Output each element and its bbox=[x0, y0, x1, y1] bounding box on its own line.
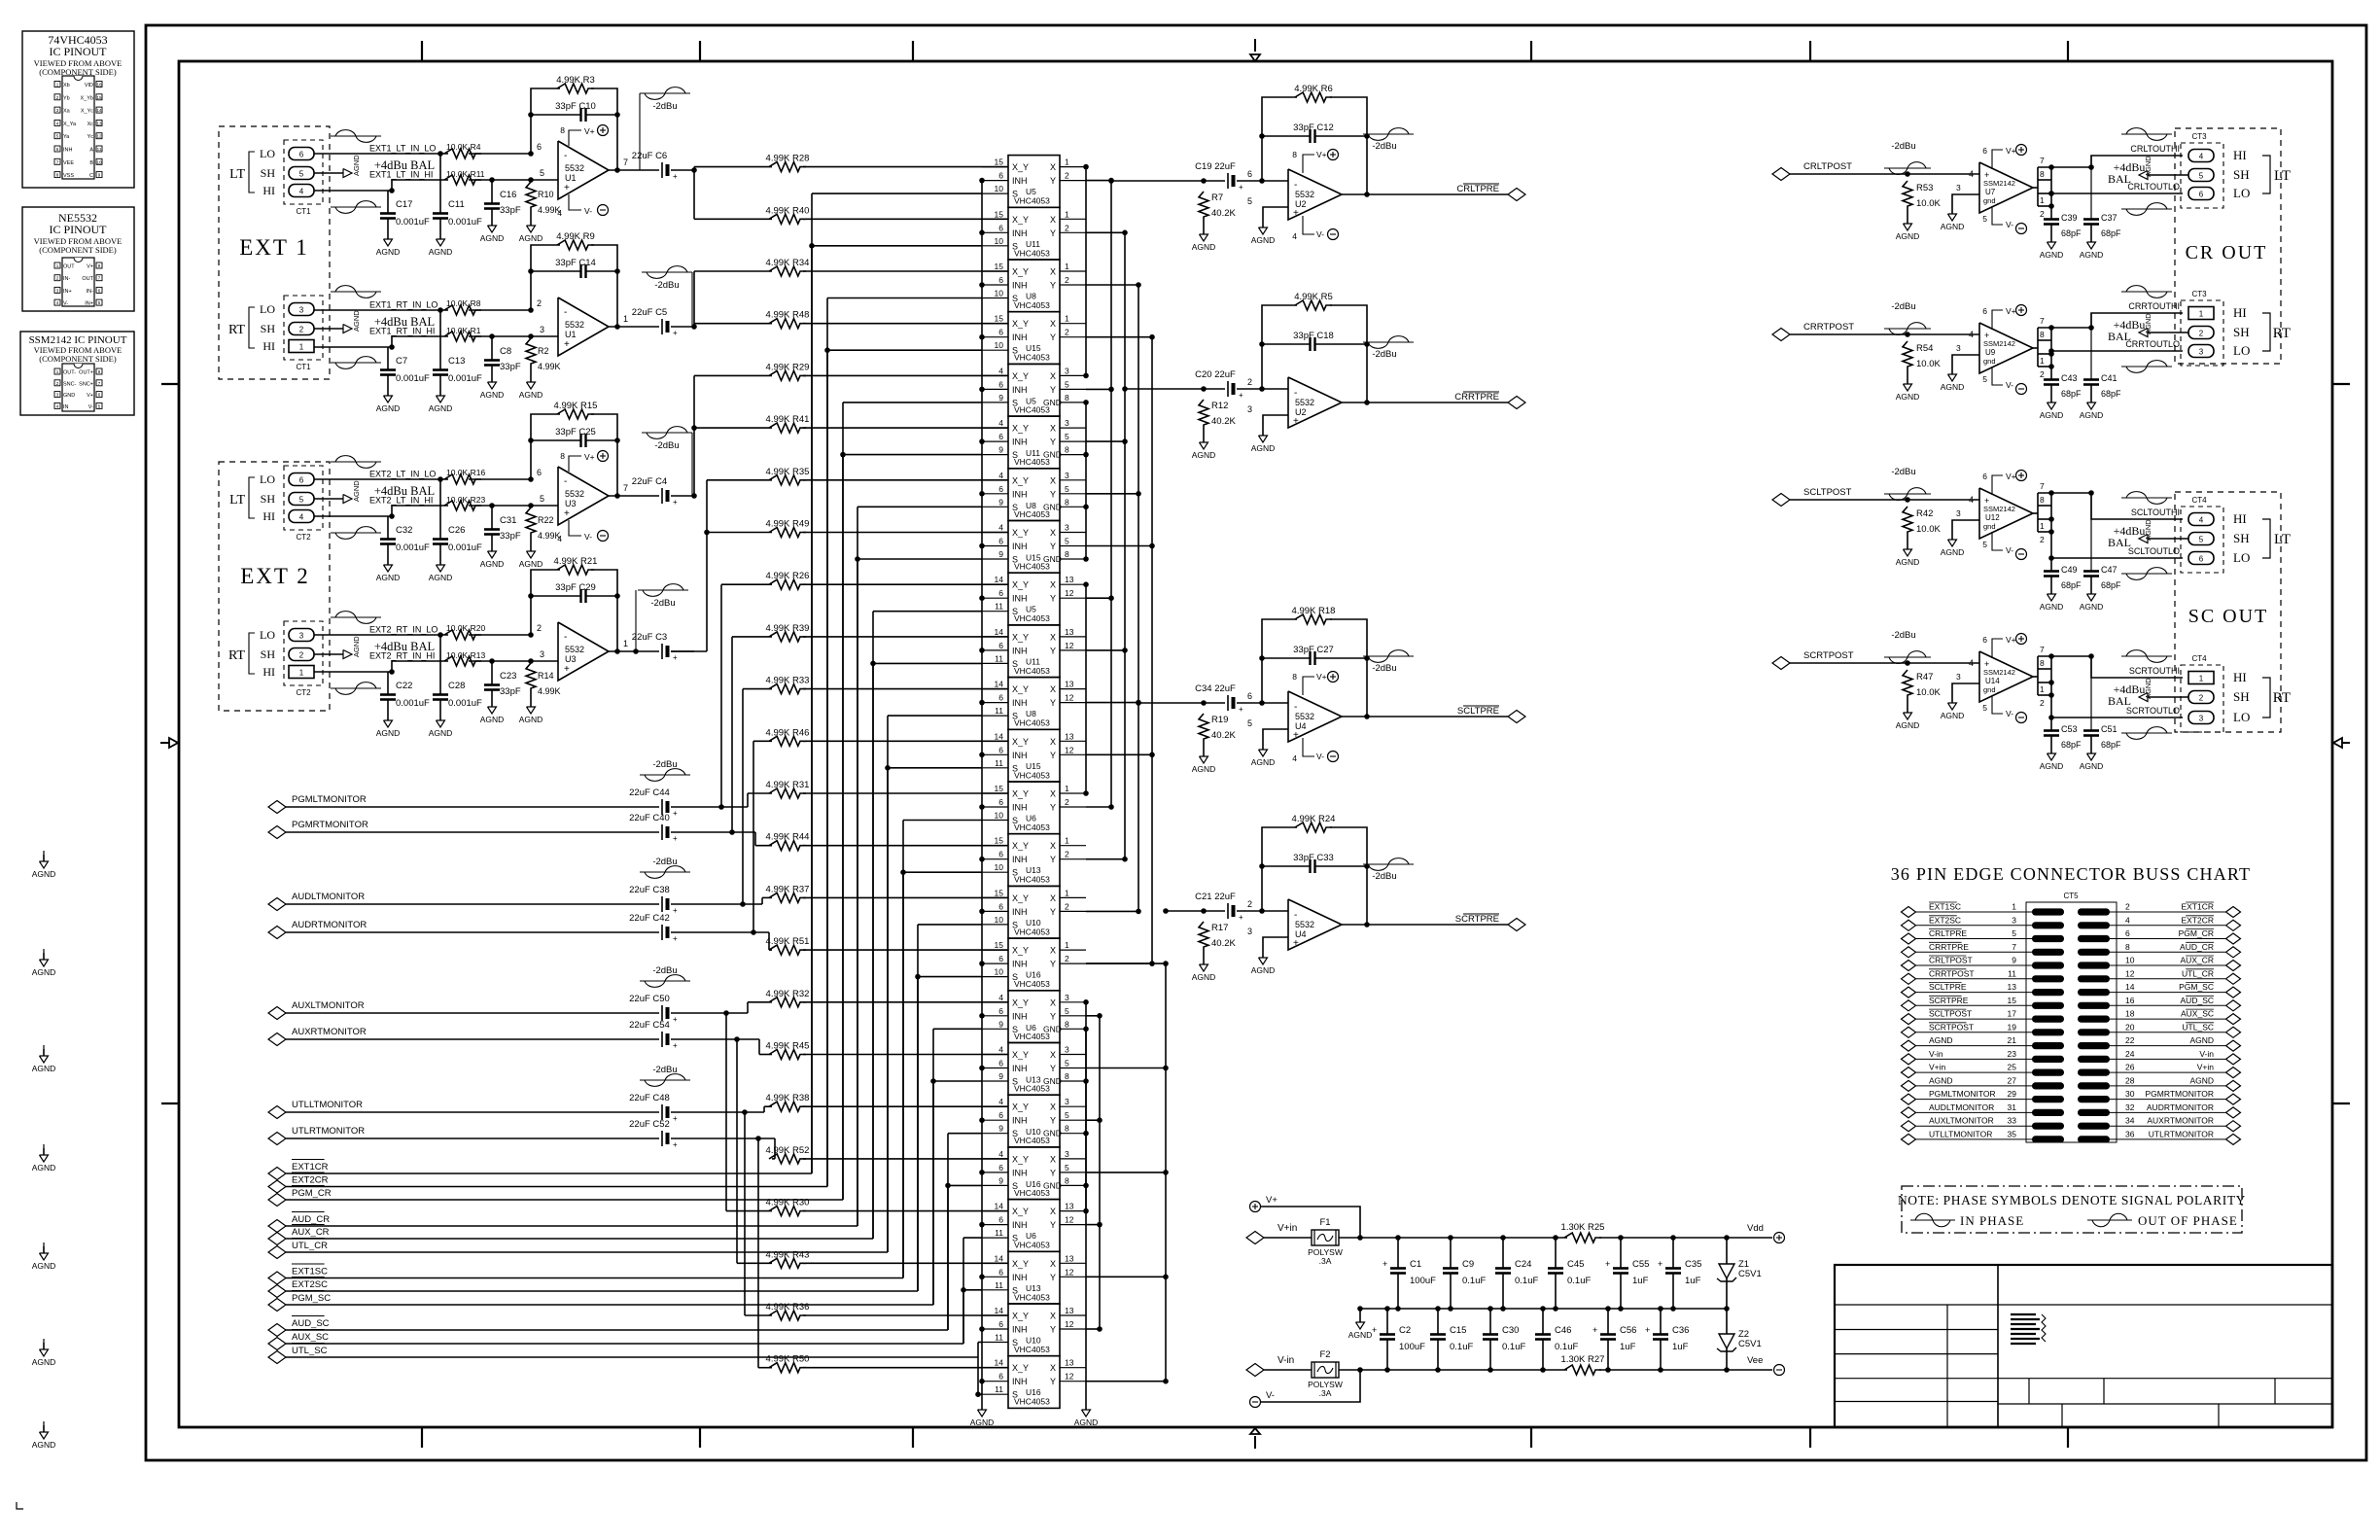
svg-text:6: 6 bbox=[1982, 306, 1987, 316]
svg-text:1: 1 bbox=[2040, 521, 2045, 531]
svg-text:22uF C3: 22uF C3 bbox=[632, 632, 667, 643]
svg-text:X: X bbox=[1050, 841, 1056, 851]
svg-text:1: 1 bbox=[1065, 262, 1069, 271]
svg-text:AUDLTMONITOR: AUDLTMONITOR bbox=[1929, 1102, 1994, 1112]
svg-text:-2dBu: -2dBu bbox=[652, 857, 677, 867]
feedback capacitor C25 33pF bbox=[528, 437, 534, 443]
phase symbol below LO bbox=[2121, 573, 2172, 575]
svg-text:3: 3 bbox=[1065, 523, 1069, 533]
op-amp U1 5532 (input stage) bbox=[558, 141, 609, 199]
svg-text:14: 14 bbox=[995, 575, 1004, 584]
svg-text:13: 13 bbox=[1065, 627, 1074, 637]
svg-text:C1: C1 bbox=[1410, 1259, 1421, 1270]
svg-text:C23: C23 bbox=[500, 671, 516, 682]
U9 gnd pin 3 bbox=[1952, 355, 1979, 367]
svg-text:5: 5 bbox=[299, 496, 304, 505]
phase symbol -2dBu bbox=[1884, 167, 1931, 169]
svg-text:3: 3 bbox=[1956, 508, 1961, 518]
svg-text:INH: INH bbox=[1012, 281, 1028, 291]
wire -2dBu tap U1b bbox=[691, 272, 693, 327]
svg-text:15: 15 bbox=[995, 888, 1004, 897]
U5 right pin stubs bbox=[1060, 166, 1086, 168]
resistor R8 10.0K bbox=[444, 305, 481, 315]
connector pin 3 LO bbox=[2188, 712, 2214, 724]
border arrow right bbox=[2342, 742, 2350, 744]
svg-text:-2dBu: -2dBu bbox=[1372, 663, 1396, 674]
svg-text:Y: Y bbox=[1050, 176, 1056, 186]
svg-text:68pF: 68pF bbox=[2101, 740, 2121, 750]
svg-text:5: 5 bbox=[2012, 928, 2016, 938]
svg-text:6: 6 bbox=[998, 171, 1003, 181]
U10 right pin stubs bbox=[1060, 896, 1086, 898]
svg-text:CRLTPRE: CRLTPRE bbox=[1929, 928, 1967, 938]
svg-text:3: 3 bbox=[1956, 343, 1961, 353]
svg-text:6: 6 bbox=[1982, 472, 1987, 481]
svg-text:CRRTPRE: CRRTPRE bbox=[1929, 942, 1969, 952]
resistor R30 4.99K bbox=[769, 1207, 806, 1216]
svg-text:7: 7 bbox=[623, 157, 628, 167]
svg-text:4: 4 bbox=[2125, 915, 2130, 925]
svg-text:CRLTPRE: CRLTPRE bbox=[1456, 184, 1499, 194]
capacitor C19 22uF bbox=[1227, 173, 1229, 189]
svg-text:HI: HI bbox=[262, 184, 275, 197]
svg-text:12: 12 bbox=[1065, 693, 1074, 703]
wire monitor branch to R44 bbox=[754, 832, 756, 846]
resistor R48 4.99K (EXT1RT to U15 X_Y) bbox=[769, 319, 806, 329]
svg-text:10: 10 bbox=[995, 184, 1004, 193]
svg-text:5: 5 bbox=[1982, 214, 1987, 224]
feedback resistor R6 4.99K bbox=[1262, 97, 1297, 181]
svg-text:U16: U16 bbox=[1026, 970, 1041, 980]
svg-text:AGND: AGND bbox=[519, 233, 543, 243]
svg-text:X_Y: X_Y bbox=[1012, 946, 1029, 956]
svg-text:gnd: gnd bbox=[1983, 196, 1996, 205]
connector pin 2 SH bbox=[2188, 327, 2214, 339]
border fiducial ticks bottom bbox=[421, 1427, 423, 1448]
wire conn LT SH to AGND bbox=[314, 172, 343, 174]
capacitor C13 0.001uF bbox=[437, 307, 443, 313]
svg-text:CT4: CT4 bbox=[2191, 654, 2207, 663]
bottom-left corner registration mark bbox=[17, 1502, 23, 1509]
svg-text:V-: V- bbox=[2006, 380, 2013, 390]
resistor R50 4.99K bbox=[769, 1363, 806, 1373]
svg-text:10: 10 bbox=[96, 159, 102, 164]
svg-text:AGND: AGND bbox=[352, 310, 361, 332]
connector pin 5 (conn LT SH) bbox=[289, 493, 314, 506]
svg-text:9: 9 bbox=[998, 1124, 1003, 1134]
ground AGND bbox=[2050, 235, 2052, 242]
svg-text:2: 2 bbox=[1065, 223, 1069, 232]
svg-text:0.1uF: 0.1uF bbox=[1462, 1276, 1486, 1286]
svg-text:+: + bbox=[673, 1114, 678, 1123]
svg-text:VHC4053: VHC4053 bbox=[1014, 509, 1050, 519]
connector pin 3 (conn RT LO) bbox=[289, 303, 314, 316]
svg-text:U5: U5 bbox=[1026, 605, 1036, 614]
svg-text:14: 14 bbox=[995, 1306, 1004, 1315]
svg-text:30: 30 bbox=[2125, 1089, 2135, 1099]
analog switch U11 VHC4053 section (block 6) bbox=[1008, 416, 1060, 469]
svg-text:4.99K R46: 4.99K R46 bbox=[766, 727, 810, 738]
svg-text:33pF C14: 33pF C14 bbox=[555, 258, 596, 268]
wire AUX_CR to select pins bbox=[286, 1238, 873, 1240]
svg-text:7: 7 bbox=[2040, 481, 2045, 491]
svg-text:X_Y: X_Y bbox=[1012, 528, 1029, 538]
svg-text:V-: V- bbox=[584, 206, 592, 216]
wire SCLTOUTHI bbox=[2088, 490, 2094, 496]
svg-text:U2: U2 bbox=[1295, 407, 1307, 417]
svg-text:1: 1 bbox=[1065, 784, 1069, 793]
svg-text:(COMPONENT SIDE): (COMPONENT SIDE) bbox=[39, 354, 117, 364]
svg-text:10.0K: 10.0K bbox=[1916, 198, 1941, 209]
svg-text:6: 6 bbox=[2199, 555, 2204, 564]
ground AGND bbox=[1907, 706, 1908, 713]
svg-text:AGND: AGND bbox=[480, 233, 505, 243]
svg-text:5: 5 bbox=[1065, 432, 1069, 441]
74VHC4053 pin 1 / pin 16 bbox=[54, 82, 60, 87]
wire SH to AGND bbox=[2148, 696, 2188, 698]
svg-text:AGND: AGND bbox=[1348, 1330, 1373, 1340]
terminal SCLTPOST bbox=[1772, 494, 1790, 507]
wire -2dBu tap U3b bbox=[635, 590, 637, 651]
svg-text:33pF C33: 33pF C33 bbox=[1293, 853, 1334, 863]
svg-text:U10: U10 bbox=[1026, 1336, 1041, 1346]
terminal EXT1SC bbox=[268, 1272, 286, 1284]
svg-text:14: 14 bbox=[995, 1358, 1004, 1368]
svg-text:VHC4053: VHC4053 bbox=[1014, 1345, 1050, 1354]
SC OUT section dashed outline bbox=[2175, 492, 2281, 732]
wire CRRTPRE output bbox=[1342, 402, 1508, 403]
phase symbol -2dBu at U1a output bbox=[640, 92, 690, 94]
svg-text:+: + bbox=[564, 664, 570, 675]
svg-text:VHC4053: VHC4053 bbox=[1014, 300, 1050, 310]
svg-text:22uF C44: 22uF C44 bbox=[629, 787, 670, 798]
svg-text:R2: R2 bbox=[538, 346, 549, 356]
svg-text:5: 5 bbox=[1982, 540, 1987, 549]
svg-text:U14: U14 bbox=[1985, 677, 2000, 685]
svg-text:AUXLTMONITOR: AUXLTMONITOR bbox=[292, 1000, 365, 1011]
svg-text:Y: Y bbox=[1050, 855, 1056, 864]
svg-text:2: 2 bbox=[299, 651, 304, 660]
resistor R52 4.99K bbox=[769, 1154, 806, 1164]
ground AGND bbox=[387, 714, 389, 720]
svg-text:3: 3 bbox=[1065, 366, 1069, 375]
svg-text:Vee: Vee bbox=[1747, 1355, 1763, 1366]
svg-text:6: 6 bbox=[998, 1319, 1003, 1329]
svg-text:Y: Y bbox=[1050, 1377, 1056, 1386]
analog switch U16 VHC4053 section (block 16) bbox=[1008, 938, 1060, 991]
svg-text:EXT1SC: EXT1SC bbox=[292, 1267, 328, 1277]
svg-text:1: 1 bbox=[1065, 940, 1069, 950]
svg-text:LT: LT bbox=[2274, 168, 2291, 184]
svg-text:U4: U4 bbox=[1295, 929, 1307, 939]
svg-text:10: 10 bbox=[2125, 956, 2135, 965]
svg-text:SCRTPRE: SCRTPRE bbox=[1929, 996, 1969, 1005]
svg-text:4.99K R18: 4.99K R18 bbox=[1292, 606, 1336, 616]
svg-text:UTL_CR: UTL_CR bbox=[292, 1241, 328, 1251]
wire Y output stub extension bbox=[1086, 1224, 1100, 1226]
U11 left pin stubs bbox=[982, 636, 1008, 638]
svg-text:6: 6 bbox=[1247, 691, 1252, 701]
connector pin 6 LO bbox=[2188, 552, 2214, 565]
wire monitor branch to R50 bbox=[671, 1137, 775, 1139]
feedback resistor R21 4.99K bbox=[528, 632, 534, 638]
svg-text:8: 8 bbox=[1065, 1019, 1069, 1029]
svg-text:33pF C12: 33pF C12 bbox=[1293, 122, 1334, 133]
svg-text:10.0K R11: 10.0K R11 bbox=[446, 169, 485, 179]
U15 right pin stubs bbox=[1060, 740, 1086, 742]
ground AGND bbox=[530, 700, 532, 707]
svg-text:-2dBu: -2dBu bbox=[1891, 630, 1915, 641]
svg-text:4: 4 bbox=[1969, 658, 1974, 668]
wire conn RT SH to AGND bbox=[314, 328, 343, 330]
svg-text:33pF C29: 33pF C29 bbox=[555, 582, 596, 593]
svg-text:R53: R53 bbox=[1916, 183, 1933, 193]
svg-text:R7: R7 bbox=[1211, 192, 1223, 203]
svg-text:EXT2SC: EXT2SC bbox=[292, 1279, 328, 1290]
svg-text:C5V1: C5V1 bbox=[1738, 1339, 1762, 1349]
svg-text:0.1uF: 0.1uF bbox=[1502, 1342, 1525, 1352]
svg-text:Y: Y bbox=[1050, 281, 1056, 291]
svg-text:X: X bbox=[1050, 946, 1056, 956]
U11 right pin stubs bbox=[1060, 636, 1086, 638]
svg-text:14: 14 bbox=[995, 1253, 1004, 1263]
svg-text:0.001uF: 0.001uF bbox=[396, 698, 430, 709]
svg-text:Xa: Xa bbox=[63, 109, 71, 115]
U5 right pin stubs bbox=[1060, 583, 1086, 585]
svg-text:Y: Y bbox=[1050, 1116, 1056, 1126]
resistor R14 4.99K bbox=[528, 658, 534, 664]
svg-text:12: 12 bbox=[2125, 968, 2135, 978]
svg-text:X_Y: X_Y bbox=[1012, 1259, 1029, 1269]
feedback capacitor C33 33pF bbox=[1259, 863, 1265, 869]
svg-text:V-in: V-in bbox=[1929, 1049, 1943, 1059]
svg-text:U15: U15 bbox=[1026, 761, 1041, 771]
svg-text:X_Ya: X_Ya bbox=[63, 122, 77, 127]
svg-text:LO: LO bbox=[2233, 710, 2250, 724]
svg-text:11: 11 bbox=[995, 758, 1003, 768]
svg-text:U11: U11 bbox=[1026, 656, 1040, 666]
analog switch U13 VHC4053 section (block 18) bbox=[1008, 1043, 1060, 1096]
svg-text:6: 6 bbox=[998, 537, 1003, 546]
wire monitor branch to R37 bbox=[761, 897, 763, 904]
analog switch U13 VHC4053 section (block 14) bbox=[1008, 834, 1060, 887]
svg-text:IC PINOUT: IC PINOUT bbox=[50, 223, 108, 236]
svg-text:LO: LO bbox=[260, 628, 275, 642]
wire vertical bus (X outputs group 2) bbox=[1085, 584, 1087, 793]
resistor R39 4.99K bbox=[769, 632, 806, 642]
svg-text:SCRTPOST: SCRTPOST bbox=[1929, 1022, 1974, 1032]
capacitor C17 0.001uF bbox=[387, 191, 389, 213]
wire AGND rail stub bbox=[1359, 1309, 1361, 1315]
U7 gnd pin 3 bbox=[1952, 194, 1979, 207]
svg-text:C39: C39 bbox=[2061, 213, 2078, 223]
svg-text:AGND: AGND bbox=[2144, 156, 2152, 177]
svg-text:R19: R19 bbox=[1211, 715, 1228, 725]
svg-text:2: 2 bbox=[2040, 209, 2045, 219]
phase symbol above conn RT bbox=[331, 616, 381, 618]
feedback resistor R5 4.99K bbox=[1262, 305, 1297, 389]
buss chart row pin 7 CRRTPRE bbox=[1902, 947, 1916, 958]
U11 right pin stubs bbox=[1060, 427, 1086, 429]
capacitor C7 0.001uF bbox=[387, 347, 389, 369]
phase symbol above HI bbox=[2121, 133, 2172, 135]
wire GND pins common vertical lower bbox=[1085, 1029, 1087, 1185]
svg-text:AGND: AGND bbox=[2144, 519, 2152, 541]
phase symbol below conn RT bbox=[331, 687, 381, 689]
title block vertical divider bbox=[1997, 1265, 1999, 1427]
feedback capacitor C27 33pF bbox=[1259, 655, 1265, 661]
wire Y output stub extension bbox=[1086, 1276, 1166, 1277]
capacitor C35 1uF bbox=[1672, 1238, 1674, 1268]
svg-text:4.99K R44: 4.99K R44 bbox=[766, 832, 810, 843]
svg-text:CT3: CT3 bbox=[2191, 132, 2207, 141]
svg-text:12: 12 bbox=[1065, 1372, 1074, 1382]
svg-text:5: 5 bbox=[299, 170, 304, 179]
svg-text:C9: C9 bbox=[1462, 1259, 1474, 1270]
terminal SCLTPRE bbox=[1508, 711, 1525, 723]
svg-text:+: + bbox=[673, 834, 678, 843]
capacitor C49 68pF bbox=[2048, 490, 2054, 496]
resistor R54 10.0K to ground bbox=[1905, 332, 1910, 337]
resistor R13 10.0K bbox=[444, 656, 481, 666]
svg-text:0.001uF: 0.001uF bbox=[448, 217, 482, 227]
svg-text:AGND: AGND bbox=[352, 155, 361, 176]
svg-text:4.99K R36: 4.99K R36 bbox=[766, 1302, 810, 1312]
svg-text:R17: R17 bbox=[1211, 923, 1228, 933]
svg-text:15: 15 bbox=[995, 836, 1004, 846]
wire non-inverting input pin 3 to ground bbox=[1263, 415, 1288, 429]
74VHC4053 pin 2 / pin 15 bbox=[54, 94, 60, 100]
svg-text:V-: V- bbox=[1266, 1390, 1275, 1401]
svg-text:100uF: 100uF bbox=[1410, 1276, 1436, 1286]
svg-text:V-in: V-in bbox=[2199, 1049, 2214, 1059]
U9 output sense pins 7 8 bbox=[2033, 347, 2038, 349]
wire monitor branch to R39 bbox=[671, 831, 755, 833]
svg-text:LO: LO bbox=[260, 302, 275, 316]
phase symbol -2dBu at U3a output bbox=[642, 432, 692, 434]
svg-text:6: 6 bbox=[299, 151, 304, 159]
resistor R37 4.99K bbox=[769, 892, 806, 902]
svg-text:4: 4 bbox=[299, 188, 304, 196]
svg-text:IN-: IN- bbox=[87, 289, 94, 295]
svg-text:9: 9 bbox=[998, 549, 1003, 559]
svg-text:21: 21 bbox=[2008, 1035, 2017, 1045]
fuse F1 POLYSW 3A bbox=[1312, 1230, 1339, 1245]
svg-text:AGND: AGND bbox=[1251, 757, 1276, 767]
svg-text:AGND: AGND bbox=[2144, 313, 2152, 334]
svg-text:VHC4053: VHC4053 bbox=[1014, 927, 1050, 936]
svg-text:LO: LO bbox=[2233, 343, 2250, 358]
wire EXT1SC to select pins bbox=[286, 1277, 903, 1279]
svg-text:SCRTOUTHI: SCRTOUTHI bbox=[2129, 666, 2180, 676]
analog switch U10 VHC4053 section (block 19) bbox=[1008, 1095, 1060, 1147]
svg-text:C49: C49 bbox=[2061, 565, 2078, 575]
capacitor C26 0.001uF bbox=[437, 476, 443, 482]
wire AUDLTMONITOR bbox=[286, 903, 659, 905]
op-amp U1 V- power pin 4 bbox=[569, 194, 581, 210]
svg-text:7: 7 bbox=[2040, 316, 2045, 326]
svg-text:11: 11 bbox=[995, 706, 1003, 716]
wire vertical bus (X outputs group 1) bbox=[1085, 167, 1087, 376]
svg-text:C35: C35 bbox=[1685, 1259, 1701, 1270]
svg-text:15: 15 bbox=[995, 262, 1004, 271]
svg-text:-2dBu: -2dBu bbox=[1372, 141, 1396, 152]
zener diode Z1 C5V1 bbox=[1726, 1238, 1728, 1264]
svg-text:V-: V- bbox=[2006, 220, 2013, 229]
svg-text:10.0K R8: 10.0K R8 bbox=[446, 298, 481, 308]
svg-text:X: X bbox=[1050, 267, 1056, 277]
svg-text:17: 17 bbox=[2008, 1009, 2017, 1019]
svg-text:X: X bbox=[1050, 424, 1056, 434]
svg-text:+: + bbox=[564, 508, 570, 519]
phase symbol above HI bbox=[2121, 655, 2172, 657]
svg-text:-2dBu: -2dBu bbox=[1891, 301, 1915, 312]
U14 V+ pin 6 bbox=[1992, 639, 2003, 658]
svg-text:22uF C48: 22uF C48 bbox=[629, 1093, 670, 1103]
svg-text:1: 1 bbox=[1065, 209, 1069, 219]
svg-text:RT: RT bbox=[2273, 326, 2291, 341]
svg-text:4.99K R32: 4.99K R32 bbox=[766, 989, 810, 999]
op-amp U2 V+ pin 8 bbox=[1303, 155, 1314, 173]
phase symbol above conn RT bbox=[331, 291, 381, 293]
svg-text:AGND: AGND bbox=[2144, 678, 2152, 699]
svg-text:VHC4053: VHC4053 bbox=[1014, 770, 1050, 780]
capacitor C23 33pF bbox=[489, 658, 495, 664]
buss chart row pin 12 UTL_CR bbox=[2078, 975, 2110, 982]
svg-text:6: 6 bbox=[299, 476, 304, 485]
svg-text:LO: LO bbox=[2233, 186, 2250, 200]
svg-text:AUX_SC: AUX_SC bbox=[2181, 1009, 2214, 1019]
U13 right pin stubs bbox=[1060, 1054, 1086, 1056]
wire AUXLTMONITOR bbox=[286, 1012, 659, 1014]
svg-text:EXT1_RT_IN_HI: EXT1_RT_IN_HI bbox=[369, 327, 435, 336]
svg-text:11: 11 bbox=[995, 1228, 1003, 1238]
svg-text:4.99K R37: 4.99K R37 bbox=[766, 884, 810, 894]
svg-text:5532: 5532 bbox=[565, 320, 584, 330]
svg-text:X: X bbox=[1050, 893, 1056, 903]
svg-text:V-: V- bbox=[1316, 229, 1324, 239]
svg-text:4.99K: 4.99K bbox=[538, 362, 561, 371]
svg-text:VHC4053: VHC4053 bbox=[1014, 1397, 1050, 1407]
svg-text:Y: Y bbox=[1050, 698, 1056, 708]
terminal AUDRTMONITOR bbox=[268, 927, 286, 939]
svg-text:CRRTPOST: CRRTPOST bbox=[1803, 322, 1854, 332]
svg-text:AGND: AGND bbox=[429, 247, 453, 257]
svg-text:X_Y: X_Y bbox=[1012, 267, 1029, 277]
svg-text:AUDLTMONITOR: AUDLTMONITOR bbox=[292, 892, 365, 902]
svg-text:11: 11 bbox=[995, 653, 1003, 663]
fuse F2 POLYSW 3A bbox=[1312, 1362, 1339, 1378]
svg-text:INH: INH bbox=[63, 148, 73, 154]
U6 right pin stubs bbox=[1060, 1001, 1086, 1003]
svg-text:AGND: AGND bbox=[32, 1261, 56, 1271]
feedback capacitor C18 33pF bbox=[1259, 341, 1265, 347]
op-amp U1 5532 (input stage) bbox=[558, 297, 609, 356]
svg-text:EXT1_LT_IN_LO: EXT1_LT_IN_LO bbox=[369, 144, 436, 154]
svg-text:AGND: AGND bbox=[1896, 720, 1920, 730]
svg-text:AGND: AGND bbox=[1251, 235, 1276, 245]
svg-text:1: 1 bbox=[299, 343, 304, 352]
wire EXT2_RT_IN_LO bbox=[314, 634, 448, 636]
svg-text:INH: INH bbox=[1012, 1064, 1028, 1073]
svg-text:1uF: 1uF bbox=[1685, 1276, 1701, 1286]
svg-text:V-: V- bbox=[63, 301, 68, 307]
svg-text:INH: INH bbox=[1012, 1168, 1028, 1177]
svg-text:R54: R54 bbox=[1916, 343, 1933, 354]
svg-text:SCRTPOST: SCRTPOST bbox=[1803, 650, 1854, 661]
svg-text:4.99K R35: 4.99K R35 bbox=[766, 467, 810, 477]
wire Y output stub extension bbox=[1086, 493, 1138, 495]
